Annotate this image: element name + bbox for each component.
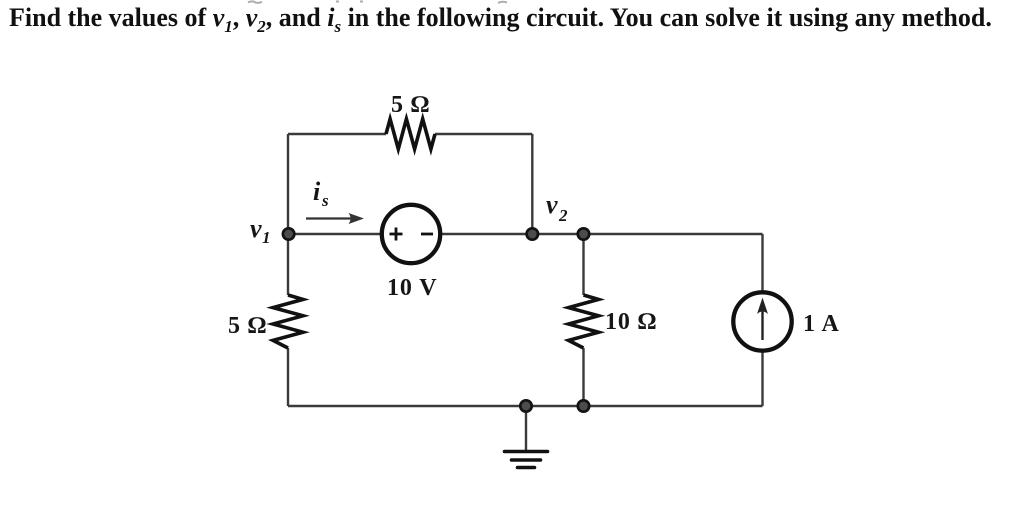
voltage source V1 circle 10V — [382, 205, 440, 263]
wire 1A branch upper — [761, 234, 763, 292]
resistor R left 5ohm zigzag — [273, 295, 303, 348]
wire left vertical lower — [287, 348, 289, 406]
svg-text:5 Ω: 5 Ω — [228, 313, 267, 339]
node dot bottom 10ohm junction — [578, 400, 589, 411]
is current arrow — [306, 217, 352, 219]
svg-text:1 A: 1 A — [803, 311, 840, 337]
svg-text:10 V: 10 V — [387, 275, 438, 301]
svg-text:2: 2 — [558, 206, 568, 225]
node dot v1 — [283, 228, 294, 239]
wire bottom horizontal — [288, 405, 763, 407]
current source arrow — [761, 305, 763, 340]
current source I1 circle 1A — [733, 292, 791, 350]
wire top left horizontal — [288, 133, 386, 135]
wire top loop right vertical — [531, 134, 533, 234]
minus sign — [421, 233, 433, 236]
svg-text:5 Ω: 5 Ω — [391, 92, 430, 118]
svg-text:i: i — [313, 177, 321, 206]
title text — [9, 3, 1019, 33]
svg-text:1: 1 — [262, 228, 271, 247]
wire node v1 to voltage source — [288, 233, 381, 235]
ground symbol — [505, 452, 548, 468]
wire 1A branch lower — [761, 351, 763, 406]
wire 10ohm branch lower — [582, 348, 584, 406]
resistor R top 5ohm zigzag — [386, 119, 435, 149]
wire ground stem — [525, 406, 527, 450]
wire left vertical upper — [287, 134, 289, 295]
svg-text:v: v — [250, 214, 262, 243]
node dot v2 — [578, 228, 589, 239]
node dot at top loop junction — [527, 228, 538, 239]
faint cropped-text artifacts at top edge — [248, 1, 507, 3]
svg-text:s: s — [321, 191, 329, 210]
svg-text:v: v — [546, 190, 558, 219]
wire 10ohm branch upper — [582, 234, 584, 295]
wire voltage source to node v2 — [441, 233, 763, 235]
node dot bottom ground junction — [520, 400, 531, 411]
svg-text:10 Ω: 10 Ω — [605, 309, 657, 335]
wire top right horizontal — [435, 133, 532, 135]
plus sign — [390, 228, 403, 241]
resistor R3 10ohm zigzag — [569, 295, 599, 348]
